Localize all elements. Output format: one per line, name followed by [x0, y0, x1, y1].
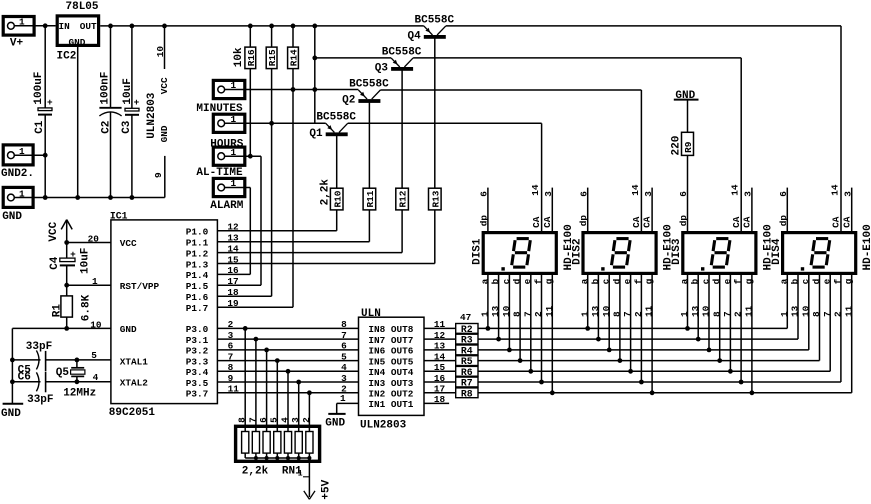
- pin name b DIS1: [490, 278, 501, 284]
- supply symbol VCC arrow: [61, 220, 72, 243]
- resistor RN1 element 1 body: [242, 432, 249, 454]
- pin number 3 DIS4: [842, 191, 853, 197]
- pin number 18 ULN OUT1: [434, 394, 446, 405]
- pin name P1.1 IC1: [186, 238, 209, 249]
- svg-text:1: 1: [480, 311, 491, 317]
- pin number 1 DIS4 a: [779, 311, 790, 317]
- pin number 13 DIS3 b: [690, 305, 701, 317]
- supply symbol +5V arrow: [304, 491, 315, 499]
- resistor R5 body: [456, 356, 478, 368]
- wire RN1 element 2 bottom lead: [255, 453, 257, 458]
- capacitor C6 curved plate: [36, 372, 39, 391]
- junction bus DIS2 pin c: [607, 348, 612, 353]
- svg-text:P1.3: P1.3: [186, 259, 209, 270]
- pin number 3 DIS1: [543, 191, 554, 197]
- svg-text:3: 3: [842, 191, 853, 197]
- junction bus DIS2 pin f: [639, 380, 644, 385]
- wire ULN GND pin 9 stub: [164, 156, 166, 198]
- wire RN1 pin 4 lead: [287, 371, 289, 431]
- svg-text:P3.1: P3.1: [186, 335, 209, 346]
- junction bus DIS2 pin e: [628, 369, 633, 374]
- svg-text:C4: C4: [49, 256, 61, 270]
- pin number 3 DIS3: [743, 191, 754, 197]
- pin name c DIS4: [800, 278, 811, 284]
- svg-text:GND: GND: [69, 37, 86, 48]
- junction bus DIS2 pin g: [650, 390, 655, 395]
- display DIS2 seven-segment digit 8: [612, 239, 631, 268]
- svg-text:GND: GND: [1, 408, 21, 420]
- pin name b DIS3: [690, 278, 701, 284]
- svg-text:14: 14: [830, 184, 841, 196]
- junction RN1 common pin 6: [265, 456, 269, 460]
- svg-text:IN2 OUT2: IN2 OUT2: [368, 389, 413, 400]
- wire Q2 base lead: [368, 103, 370, 189]
- pin name d DIS1: [512, 279, 523, 285]
- svg-text:100uF: 100uF: [33, 72, 45, 105]
- wire R14 top lead: [292, 26, 294, 47]
- svg-text:6: 6: [341, 341, 347, 352]
- svg-text:6: 6: [778, 191, 789, 197]
- svg-text:13: 13: [690, 305, 701, 317]
- wire DIS1 CA pin 3 stub: [551, 188, 553, 231]
- label BC558C Q1: [316, 112, 356, 124]
- svg-text:2: 2: [228, 319, 234, 330]
- label MINUTES: [196, 103, 243, 115]
- wire C4 to RST: [66, 265, 68, 285]
- junction GND row/C1: [43, 195, 48, 200]
- transistor Q4 emitter arrow: [424, 26, 433, 35]
- wire IC2 GND down: [77, 47, 79, 198]
- wire R15 bottom lead: [271, 69, 273, 124]
- wire ULN OUT6 to R4: [424, 349, 456, 351]
- svg-text:a: a: [679, 278, 690, 284]
- svg-text:2: 2: [833, 311, 844, 317]
- junction rail/ULN VCC: [162, 24, 167, 29]
- capacitor C1 plates: [38, 97, 53, 115]
- wire Q1 collector to DIS1 CA: [348, 122, 542, 124]
- svg-text:R6: R6: [461, 367, 473, 378]
- pin number 8 DIS1 d: [512, 311, 523, 317]
- wire P1.5 up to AL-TIME row: [260, 156, 262, 285]
- wire C5 left lead: [12, 359, 40, 361]
- svg-text:R4: R4: [461, 346, 473, 357]
- wire DIS2 CA pin 3 stub: [651, 188, 653, 231]
- wire DIS2 segment c to bus: [608, 275, 610, 350]
- pin number 6 P3 row 2: [228, 341, 234, 352]
- connector HOURS pin 1: [213, 114, 245, 132]
- svg-text:+: +: [70, 249, 76, 260]
- svg-text:5: 5: [91, 350, 97, 361]
- svg-text:f: f: [633, 278, 644, 284]
- svg-text:CA: CA: [831, 216, 842, 228]
- junction rail/R14: [291, 24, 296, 29]
- svg-text:C3: C3: [121, 120, 133, 134]
- label ULN2803: [360, 419, 407, 431]
- svg-text:Q1: Q1: [309, 128, 323, 140]
- svg-text:11: 11: [843, 305, 854, 317]
- svg-text:IN8 OUT8: IN8 OUT8: [368, 324, 413, 335]
- display DIS3 decimal point: [701, 267, 704, 270]
- junction bus DIS3 pin e: [728, 369, 733, 374]
- pin name f DIS1: [533, 278, 544, 284]
- svg-text:R13: R13: [430, 190, 441, 207]
- label GND ULN pin name: [159, 125, 170, 142]
- label +5V: [321, 479, 333, 499]
- resistor R4 body: [456, 345, 478, 357]
- transistor Q3 base bar: [391, 67, 413, 71]
- pin name P1.2 IC1: [186, 248, 209, 259]
- svg-text:f: f: [733, 278, 744, 284]
- svg-text:R15: R15: [267, 49, 278, 66]
- pin number 6 DIS4: [778, 191, 789, 197]
- pin name dp DIS2: [578, 215, 589, 227]
- wire IC1 VCC pin 20: [67, 242, 111, 244]
- svg-text:+: +: [134, 97, 140, 108]
- transistor Q3 collector diagonal: [404, 58, 413, 67]
- wire MINUTES row to Q2 emitter: [225, 89, 359, 91]
- svg-text:P3.3: P3.3: [186, 356, 209, 367]
- wire ULN OUT1 stub: [424, 402, 449, 404]
- pin number 11 DIS4 g: [843, 305, 854, 317]
- resistor RN1 element 5 body: [284, 432, 291, 454]
- junction rail/R16: [248, 24, 253, 29]
- pin number 11 DIS2 g: [644, 305, 655, 317]
- pin number 18 P1.6: [227, 287, 239, 298]
- svg-text:R5: R5: [461, 356, 473, 367]
- svg-text:+: +: [47, 97, 53, 108]
- wire DIS1 segment c to bus: [508, 275, 510, 350]
- svg-text:4: 4: [279, 417, 290, 423]
- wire DIS1 dp pin 6 stub: [487, 188, 489, 231]
- svg-text:c: c: [601, 278, 612, 284]
- pin number 5 XTAL1: [91, 350, 97, 361]
- svg-text:a: a: [479, 278, 490, 284]
- svg-text:33pF: 33pF: [26, 341, 52, 353]
- wire RN1 pin 7 lead: [255, 339, 257, 431]
- wire crystal top lead: [76, 360, 78, 368]
- svg-text:10k: 10k: [233, 47, 245, 67]
- svg-text:e: e: [622, 278, 633, 284]
- pin number 15 P1.3: [227, 254, 239, 265]
- svg-text:CA: CA: [631, 216, 642, 228]
- wire bus row d (R5): [478, 360, 820, 362]
- wire ULN VCC pin 10 stub: [164, 26, 166, 69]
- svg-text:b: b: [490, 278, 501, 284]
- wire Q2 collector to DIS2 CA: [380, 89, 641, 91]
- svg-text:Q4: Q4: [408, 31, 422, 43]
- wire RN1 element 5 bottom lead: [287, 453, 289, 458]
- label 100uF C1 value: [33, 72, 45, 105]
- svg-text:ALARM: ALARM: [210, 200, 243, 212]
- svg-text:6: 6: [678, 191, 689, 197]
- display DIS3 seven-segment digit 8: [711, 239, 730, 268]
- svg-text:15: 15: [434, 362, 446, 373]
- resistor R12 body: [396, 188, 409, 210]
- pin number 7 DIS4 e: [822, 311, 833, 317]
- wire P1.7 line: [217, 306, 293, 308]
- capacitor C5 straight plate: [45, 351, 47, 371]
- svg-text:CA: CA: [531, 216, 542, 228]
- svg-text:VCC: VCC: [48, 221, 60, 241]
- svg-text:AL-TIME: AL-TIME: [196, 167, 243, 179]
- wire DIS2 CA pin 14 vertical: [640, 90, 642, 231]
- label 47 R2-R8 value: [460, 312, 471, 323]
- pin number 7 RN1: [247, 417, 258, 423]
- wire P1.6 up to HOURS row: [271, 123, 273, 296]
- svg-text:GND: GND: [159, 125, 170, 142]
- pin name c DIS2: [601, 278, 612, 284]
- junction P3 row 4/RN1: [286, 369, 291, 374]
- wire R14 bottom lead: [292, 69, 294, 90]
- svg-text:ULN: ULN: [361, 308, 381, 320]
- svg-text:89C2051: 89C2051: [109, 407, 156, 419]
- wire VCC to C4: [66, 243, 68, 259]
- svg-text:10: 10: [155, 46, 166, 58]
- pin number 1 DIS2 a: [579, 311, 590, 317]
- svg-text:GND: GND: [120, 324, 137, 335]
- svg-text:10: 10: [601, 305, 612, 317]
- pin number 10 ULN VCC: [155, 46, 166, 58]
- wire ULN OUT5 to R5: [424, 360, 456, 362]
- svg-text:3: 3: [643, 191, 654, 197]
- pin name CA3 DIS3: [742, 216, 753, 228]
- svg-text:33pF: 33pF: [27, 394, 53, 406]
- svg-text:10: 10: [800, 305, 811, 317]
- pin number 2 ULN IN2: [341, 384, 347, 395]
- wire DIS4 segment a to bus: [786, 275, 788, 328]
- pin number 1 RST: [92, 276, 98, 287]
- resistor R8 body: [456, 388, 478, 400]
- wire R13 bottom lead: [434, 210, 436, 264]
- pin number 14 P1.2: [227, 243, 239, 254]
- svg-text:1: 1: [679, 311, 690, 317]
- wire DIS2 segment d to bus: [619, 275, 621, 361]
- svg-text:6: 6: [258, 417, 269, 423]
- label ULN2803 power symbol: [146, 92, 158, 139]
- svg-text:3: 3: [228, 330, 234, 341]
- capacitor C6 straight plate: [45, 372, 47, 392]
- svg-text:VCC: VCC: [159, 77, 170, 94]
- junction P3 row 0/RN1: [243, 326, 248, 331]
- pin name P1.3 IC1: [186, 259, 209, 270]
- wire DIS3 segment g to bus: [751, 275, 753, 393]
- wire RN1 pin 8 lead: [244, 328, 246, 431]
- pin number 6 DIS2: [578, 191, 589, 197]
- ground symbol R9: [674, 99, 699, 101]
- pin name CA14 DIS1: [531, 216, 542, 228]
- svg-text:BC558C: BC558C: [415, 14, 455, 26]
- pin names IN7 OUT7 ULN: [368, 335, 413, 346]
- junction HOURS/R15: [269, 121, 274, 126]
- pin number 19 P1.7: [227, 298, 239, 309]
- wire ULN OUT8 to R2: [424, 327, 456, 329]
- svg-text:8: 8: [341, 319, 347, 330]
- pin number 3 P3 row 1: [228, 330, 234, 341]
- svg-text:2: 2: [301, 417, 312, 423]
- label 12MHz crystal value: [63, 388, 96, 400]
- display DIS2 decimal point: [601, 267, 604, 270]
- wire DIS4 segment f to bus: [840, 275, 842, 382]
- svg-text:R9: R9: [683, 141, 694, 153]
- pin number 1 DIS1 a: [480, 311, 491, 317]
- svg-text:DIS1: DIS1: [472, 238, 484, 265]
- label GND bottom left: [1, 408, 21, 420]
- svg-text:11: 11: [644, 305, 655, 317]
- label 33pF C6 value: [27, 394, 53, 406]
- wire HOURS row to Q1 emitter: [225, 122, 326, 124]
- svg-text:P1.2: P1.2: [186, 248, 209, 259]
- wire IC1 RST pin 1: [67, 284, 111, 286]
- wire DIS2 segment f to bus: [640, 275, 642, 382]
- pin name GND IC1: [120, 324, 137, 335]
- svg-text:14: 14: [434, 351, 446, 362]
- connector GND2 pin 1: [3, 145, 33, 165]
- svg-text:10uF: 10uF: [80, 248, 92, 274]
- svg-text:1: 1: [579, 311, 590, 317]
- svg-text:13: 13: [434, 341, 446, 352]
- capacitor C2 curved plate: [99, 112, 121, 116]
- svg-text:12: 12: [434, 330, 446, 341]
- pin number 7 ULN IN7: [341, 330, 347, 341]
- pin names IN1 OUT1 ULN: [368, 399, 413, 410]
- wire bus row f (R7): [478, 381, 841, 383]
- wire ULN OUT4 to R6: [424, 370, 456, 372]
- wire Q3 base lead: [401, 70, 403, 188]
- wire DIS2 segment e to bus: [630, 275, 632, 371]
- wire RN1 pin 6 lead: [266, 350, 268, 432]
- svg-text:P1.5: P1.5: [186, 281, 209, 292]
- label GND ULN IN1: [325, 417, 345, 429]
- resistor R10 body: [330, 188, 343, 210]
- pin name b DIS2: [590, 278, 601, 284]
- svg-text:6.8K: 6.8K: [81, 294, 93, 321]
- pin number 17 ULN OUT2: [434, 384, 445, 395]
- pin name d DIS4: [811, 279, 822, 285]
- svg-text:V+: V+: [10, 37, 24, 49]
- connector GND pin 1: [3, 187, 33, 207]
- svg-text:2,2k: 2,2k: [242, 465, 269, 477]
- display DIS4 decimal point: [801, 267, 804, 270]
- capacitor C2 straight plate: [99, 107, 121, 109]
- svg-text:CA: CA: [841, 216, 852, 228]
- svg-text:IC1: IC1: [110, 211, 128, 222]
- wire DIS1 segment f to bus: [541, 275, 543, 382]
- pin name a DIS1: [479, 278, 490, 284]
- wire IC1 GND pin 10: [12, 327, 111, 329]
- junction GND row/IC2 GND: [75, 195, 80, 200]
- wire DIS1 CA pin 14 vertical: [541, 123, 543, 231]
- svg-text:f: f: [533, 278, 544, 284]
- svg-text:+5V: +5V: [321, 479, 333, 499]
- wire V+ down to C1: [44, 26, 46, 108]
- svg-text:7: 7: [247, 417, 258, 423]
- label VCC arrow: [48, 221, 60, 241]
- svg-text:IN4 OUT4: IN4 OUT4: [368, 367, 413, 378]
- wire DIS4 segment b to bus: [797, 275, 799, 339]
- wire rail to C3: [131, 26, 133, 108]
- svg-text:dp: dp: [478, 215, 489, 227]
- wire RN1 pin 3 lead: [298, 382, 300, 432]
- pin number 13 ULN OUT6: [434, 341, 446, 352]
- svg-text:e: e: [822, 278, 833, 284]
- svg-text:78L05: 78L05: [66, 1, 99, 13]
- label HD-E100 DIS4: [862, 224, 871, 270]
- pin number 4 ULN IN4: [341, 362, 347, 373]
- pin name g DIS4: [843, 278, 854, 284]
- pin name CA14 DIS2: [631, 216, 642, 228]
- wire DIS2 segment a to bus: [587, 275, 589, 328]
- wire DIS3 segment e to bus: [729, 275, 731, 371]
- pin name P3.1 IC1: [186, 335, 209, 346]
- pin number 2 DIS3 f: [733, 311, 744, 317]
- pin number 1 RN1: [298, 470, 310, 479]
- svg-text:b: b: [590, 278, 601, 284]
- pin number 15 ULN OUT4: [434, 362, 446, 373]
- wire RN1 pin 5 lead: [276, 361, 278, 432]
- pin name g DIS2: [644, 278, 655, 284]
- svg-text:c: c: [501, 278, 512, 284]
- wire Q4 base lead: [434, 38, 436, 188]
- svg-text:P1.1: P1.1: [186, 238, 209, 249]
- pin name a DIS4: [779, 278, 790, 284]
- label 2,2k R10-R13 value: [319, 179, 331, 206]
- pin name P3.4 IC1: [186, 367, 209, 378]
- pin number 1 ULN IN1: [340, 393, 346, 404]
- wire DIS3 segment c to bus: [708, 275, 710, 350]
- junction rail/emitter rail: [312, 24, 317, 29]
- resistor R16 body: [245, 47, 257, 69]
- svg-text:Q3: Q3: [375, 63, 389, 75]
- wire R1 bottom lead: [66, 317, 68, 328]
- pin number 14 DIS3: [730, 184, 741, 196]
- wire emitter rail vertical: [314, 26, 316, 123]
- svg-text:XTAL1: XTAL1: [120, 356, 149, 367]
- wire GND connector to GND row: [14, 197, 45, 199]
- svg-text:IN6 OUT6: IN6 OUT6: [368, 346, 413, 357]
- wire R9 to DIS3 dp pin 6: [687, 155, 689, 231]
- pin name P3.2 IC1: [186, 346, 209, 357]
- junction crystal bottom: [75, 379, 80, 384]
- pin number 9 ULN GND: [153, 172, 164, 178]
- svg-text:7: 7: [622, 311, 633, 317]
- display DIS4 seven-segment digit 8: [811, 239, 830, 268]
- wire XTAL1 pin 5 line: [46, 359, 111, 361]
- junction P3 row 2/RN1: [264, 348, 269, 353]
- svg-text:6: 6: [479, 191, 490, 197]
- label IC1: [110, 211, 128, 222]
- wire DIS1 segment b to bus: [498, 275, 500, 339]
- pin number 7 DIS3 e: [722, 311, 733, 317]
- svg-text:DIS2: DIS2: [571, 238, 583, 264]
- label HD-E100 DIS2: [663, 224, 675, 270]
- pin number 3 DIS2: [643, 191, 654, 197]
- pin number 3 ULN IN3: [341, 373, 347, 384]
- display DIS1 seven-segment digit 8: [512, 239, 531, 268]
- pin name g DIS1: [544, 278, 555, 284]
- pin name VCC IC1: [120, 238, 137, 249]
- pin name XTAL2 IC1: [120, 378, 149, 389]
- junction bus DIS2 pin a: [585, 326, 590, 331]
- label 10k value R14-R16: [233, 47, 245, 67]
- svg-text:P1.4: P1.4: [186, 270, 209, 281]
- pin name CA14 DIS4: [831, 216, 842, 228]
- wire DIS4 CA pin 3 stub: [851, 188, 853, 231]
- pin number 10 DIS3 c: [701, 305, 712, 317]
- wire DIS2 segment b to bus: [597, 275, 599, 339]
- junction RST/R1: [64, 283, 69, 288]
- svg-text:11: 11: [228, 384, 240, 395]
- capacitor C3 plates: [125, 97, 140, 115]
